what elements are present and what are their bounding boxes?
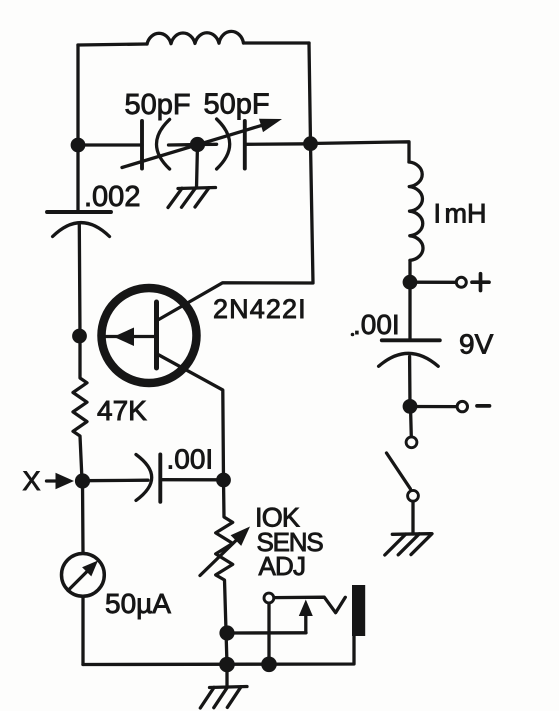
- svg-text:50pF: 50pF: [204, 89, 270, 121]
- svg-text:mH: mH: [445, 199, 487, 229]
- svg-text:ADJ: ADJ: [259, 551, 306, 581]
- svg-text:.00I: .00I: [353, 309, 400, 340]
- svg-text:.002: .002: [84, 181, 140, 213]
- svg-text:X: X: [23, 466, 41, 496]
- svg-text:.00I: .00I: [167, 444, 214, 475]
- svg-text:50µA: 50µA: [105, 588, 171, 619]
- svg-text:2N422I: 2N422I: [213, 294, 307, 324]
- svg-text:9V: 9V: [459, 329, 494, 360]
- svg-text:50pF: 50pF: [125, 89, 191, 121]
- svg-text:47K: 47K: [97, 395, 147, 426]
- svg-text:I: I: [434, 199, 442, 229]
